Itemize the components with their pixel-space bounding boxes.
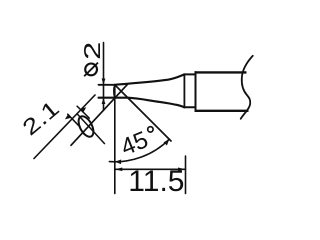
45° dimension arc — [109, 139, 169, 162]
tip top profile (neck curve from bevel vertex to ferrule) — [115, 74, 185, 84]
2.1 extension tick T1 (upper) — [77, 106, 89, 118]
shank cylinder outline — [195, 71, 197, 112]
arrowhead 2.1 at T2 (points up-right) — [65, 114, 71, 119]
ferrule band outline — [183, 74, 185, 109]
arrowhead ø2 top (points down to y=84.8) — [102, 79, 106, 85]
2.1 dimension line (parallel to D1) — [34, 95, 95, 159]
bevel face axis line D1 (through ellipse) — [71, 84, 128, 145]
arrowhead 45° arc left end (points left at vertical line) — [115, 160, 121, 165]
extension line right (x=185.5) — [185, 156, 187, 194]
bevel face ellipse (auxiliary view) — [76, 114, 97, 139]
svg-text:2: 2 — [79, 42, 105, 60]
ellipse cross centerline (perpendicular) — [78, 114, 105, 143]
11.5 dimension line — [115, 168, 186, 170]
arrowhead 11.5 left (points left) — [115, 168, 123, 172]
arrowhead 45° arc right end (points up-right at D2) — [164, 139, 170, 145]
svg-text:45: 45 — [117, 126, 152, 161]
break line (S-curve) at right end of shank — [241, 56, 253, 119]
arrowhead ø2 bottom (points up to y=97.7) — [102, 98, 106, 104]
tip end cap (bevel rim arc) — [113, 85, 116, 98]
diameter symbol ø of ø2 — [84, 63, 98, 77]
2.1 extension tick T2 (lower) — [68, 114, 80, 126]
degree symbol of 45° — [148, 127, 153, 132]
arrowhead 11.5 right (points right) — [178, 168, 186, 172]
extension/bottom profile line (ø2 lower + tip bottom profile) — [99, 98, 185, 108]
extension line vertical at vertex x=114.8 — [114, 85, 116, 194]
dimension line ø2 (vertical at x=103.5) — [103, 43, 105, 111]
svg-text:11.5: 11.5 — [128, 165, 184, 195]
extension line top (ø2 upper, y=84.8) — [99, 84, 115, 86]
arrowhead 2.1 at T1 (points down-left) — [80, 107, 86, 112]
angle indicator line D2 (45° from vertex down-right) — [115, 85, 171, 141]
